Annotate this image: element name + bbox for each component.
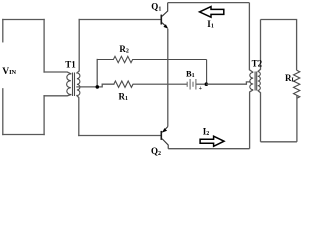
transformer T2 secondary winding — [258, 72, 261, 91]
wire bottom-left — [3, 134, 44, 136]
junction node A dot — [96, 85, 100, 89]
transformer T2 core — [255, 72, 257, 91]
wire T1 primary bottom stub — [44, 95, 71, 96]
wire node A riser — [96, 60, 98, 87]
wire bottom rail — [168, 148, 249, 150]
svg-text:Q2: Q2 — [151, 146, 161, 157]
transistor Q1 collector lead — [162, 3, 168, 17]
wire T1 secondary bottom lead — [77, 96, 79, 136]
wire top-left — [3, 19, 44, 21]
wire T2 secondary top lead — [258, 20, 261, 72]
wire T2 primary bottom lead — [250, 90, 254, 149]
svg-text:T1: T1 — [65, 59, 76, 69]
current arrow I2 — [200, 136, 224, 146]
svg-text:I1: I1 — [207, 19, 214, 30]
current arrow I1 — [200, 7, 224, 18]
resistor RL — [294, 70, 300, 98]
wire load branch top — [261, 20, 297, 71]
transformer T1 primary winding — [67, 74, 71, 95]
svg-text:+: + — [199, 86, 203, 92]
svg-text:B1: B1 — [186, 68, 195, 79]
transistor Q2 emitter arrowhead — [162, 128, 167, 132]
svg-text:R1: R1 — [119, 92, 129, 103]
wire base drive top to Q1 — [79, 19, 160, 21]
wire base drive bottom to Q2 — [79, 135, 161, 137]
wire load branch right down — [296, 96, 298, 142]
wire T1 center tap — [77, 86, 97, 88]
wire top rail — [168, 2, 250, 4]
resistor R1 — [114, 81, 188, 87]
transistor Q1 emitter lead — [162, 23, 167, 28]
source VIN bottom terminal stub — [2, 89, 4, 135]
battery B1 — [187, 79, 196, 90]
transformer T1 secondary winding — [77, 73, 80, 96]
transformer T1 core — [73, 73, 75, 97]
resistor R2 — [97, 56, 206, 62]
transistor Q2 base bar — [161, 131, 163, 140]
wire load branch bottom — [261, 141, 297, 143]
transistor Q2 emitter lead — [162, 127, 168, 133]
wire node B to T2 center tap — [206, 82, 250, 84]
source VIN top terminal stub — [2, 20, 4, 42]
transistor Q1 emitter arrowhead — [163, 24, 168, 28]
svg-text:T2: T2 — [252, 59, 263, 69]
wire left upper vertical — [43, 20, 45, 73]
svg-text:R2: R2 — [119, 44, 128, 55]
wire T2 primary top lead — [249, 3, 253, 73]
wire R2 right drop — [206, 60, 208, 85]
wire T2 secondary bottom lead — [258, 90, 261, 141]
transformer T2 primary winding — [250, 72, 253, 89]
junction node B dot — [205, 82, 209, 86]
transistor Q1 base bar — [161, 15, 163, 25]
wire Q1 emitter to Q2 emitter — [167, 29, 169, 127]
svg-text:Q1: Q1 — [151, 2, 161, 13]
wire T1 primary top stub — [44, 72, 71, 74]
svg-text:VIN: VIN — [2, 67, 16, 77]
wire left lower vertical — [43, 96, 45, 135]
wire R1 left jog — [97, 84, 114, 87]
wire battery to node B — [196, 83, 204, 85]
svg-text:I2: I2 — [203, 127, 210, 138]
transistor Q2 collector lead — [162, 139, 168, 149]
wire T1 secondary top lead — [77, 20, 79, 74]
